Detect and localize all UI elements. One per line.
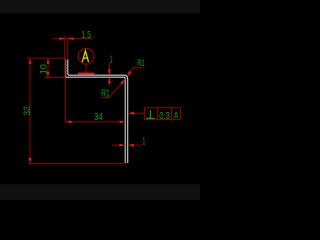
thickness dimension 1 (top leg): arrows bbox=[108, 69, 111, 75]
dimension 32: dimension line bbox=[29, 58, 31, 163]
datum A: base bar bbox=[78, 73, 94, 75]
radius R1 (outer corner): arrow bbox=[127, 71, 131, 76]
datum A: circle bbox=[78, 48, 94, 64]
feature control frame: leader bbox=[128, 112, 144, 114]
feature control frame: perpendicularity symbol bbox=[146, 110, 155, 118]
svg-text:R1: R1 bbox=[137, 58, 144, 68]
dimension 10: top extension line bbox=[27, 57, 66, 59]
dimension 10: arrows bbox=[47, 58, 50, 64]
svg-text:10: 10 bbox=[38, 64, 48, 74]
svg-text:1: 1 bbox=[110, 55, 113, 66]
dimension 10: dimension line bbox=[47, 58, 49, 77]
thickness dimension 1 (right sheet): right segment bbox=[128, 144, 142, 146]
svg-text:1: 1 bbox=[142, 137, 145, 148]
dimension 1.5: left extension line (continues as 34 left extension) bbox=[64, 36, 67, 123]
svg-text:34: 34 bbox=[94, 112, 103, 123]
svg-text:R1: R1 bbox=[101, 89, 110, 100]
top toolbar band bbox=[0, 0, 200, 13]
datum A: stem bbox=[85, 64, 87, 73]
radius R1 (inner corner): leader bbox=[102, 79, 126, 97]
dimension 32: arrows bbox=[29, 58, 32, 64]
dimension 1.5: arrows bbox=[59, 37, 65, 40]
feature control frame: arrow bbox=[128, 112, 134, 115]
sheet profile: leg top surface + outer bend + right outer surface bbox=[69, 75, 128, 163]
dimension 34: arrows bbox=[66, 121, 72, 124]
svg-text:32: 32 bbox=[22, 106, 32, 115]
dimension 1.5: right extension line bbox=[67, 36, 69, 59]
dimension 1.5: dimension line bbox=[52, 38, 92, 40]
svg-text:0.3: 0.3 bbox=[159, 111, 170, 122]
sheet profile: leg bottom surface + inner bend + right inner surface bbox=[65, 77, 125, 163]
thickness dimension 1 (top leg): upper leader bbox=[109, 63, 111, 75]
thickness dimension 1 (right sheet): arrows bbox=[119, 144, 125, 147]
dimension 32: bottom extension line bbox=[28, 163, 125, 165]
datum A: letter bbox=[82, 51, 88, 62]
svg-text:A: A bbox=[174, 110, 179, 121]
svg-text:1.5: 1.5 bbox=[81, 30, 91, 41]
radius R1 (outer corner): leader bbox=[127, 68, 144, 77]
dimension 34: dimension line bbox=[66, 121, 125, 123]
dimension 10: bottom extension line bbox=[45, 76, 66, 78]
thickness dimension 1 (right sheet): left segment bbox=[112, 144, 125, 146]
thickness dimension 1 (top leg): lower leader bbox=[108, 78, 110, 86]
feature control frame: boxes bbox=[144, 108, 180, 120]
radius R1 (inner corner): arrow bbox=[120, 79, 125, 84]
sheet profile: flange right surface bbox=[68, 59, 70, 75]
sheet profile: break zigzag (left cut edge of flange) bbox=[65, 59, 66, 76]
datum A: quadrant ticks bbox=[77, 55, 95, 57]
bottom toolbar band bbox=[0, 184, 200, 200]
